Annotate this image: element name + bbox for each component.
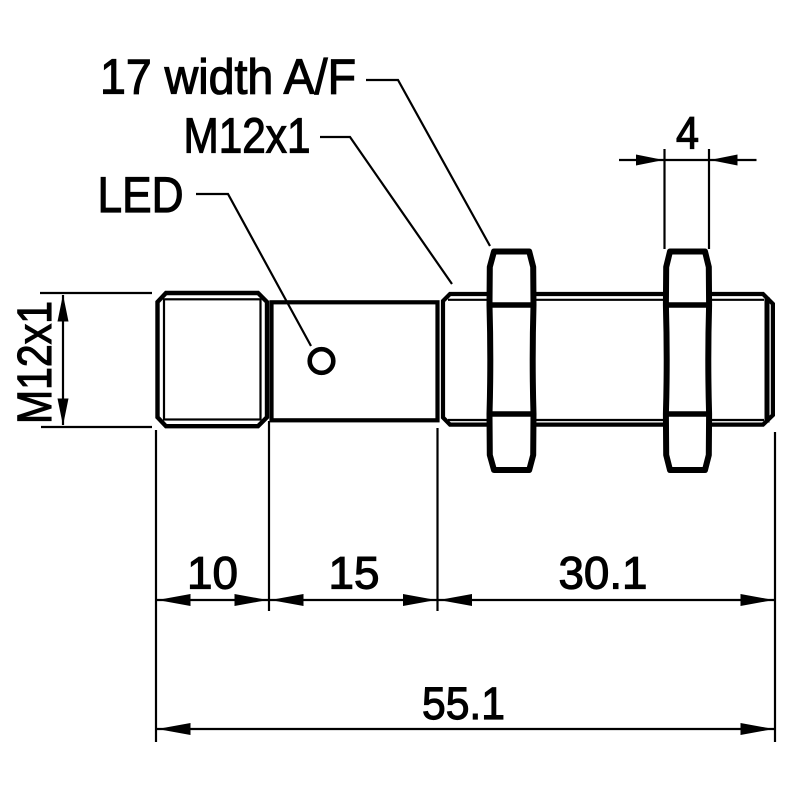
svg-text:55.1: 55.1 [422,678,505,729]
hex nut 2 upper facet line [663,302,711,307]
svg-text:15: 15 [329,548,380,599]
rear threaded barrel (30.1 mm section) outline [443,294,773,425]
svg-text:10: 10 [187,548,238,599]
rear barrel end-face edge (right) [765,297,770,423]
svg-text:M12x1: M12x1 [184,110,311,164]
extension line below body right end (x=775) [774,432,776,742]
svg-text:M12x1: M12x1 [9,301,62,424]
extension line top for vertical M12x1 [40,292,152,294]
extension line left of nut 2 width [663,149,665,249]
arrowhead right tip of "55.1" [741,723,774,735]
leader line for "M12x1" to rear barrel [320,137,452,284]
vertical dimension line for M12x1 [62,295,64,425]
arrowhead right tip of "30.1" [741,594,774,606]
leader line for "LED" to indicator circle [196,194,311,346]
arrowhead right tip of "15" [403,594,436,606]
left threaded section thread minor-diameter rectangle [164,299,261,419]
leader line for "17 width A/F" to nut 1 [366,80,490,246]
hex nut 1 upper facet line [487,302,536,307]
svg-text:17 width A/F: 17 width A/F [100,51,356,105]
left threaded section (10 mm section) outer outline [158,293,268,426]
hex nut 2 (rear lock nut) outline [666,252,709,471]
extension line below 10/15 junction (x=269) [268,421,270,611]
overall dimension line at y=729 [156,728,775,730]
middle body section (15 mm section) [272,302,438,420]
hex nut 1 lower facet line [487,411,536,416]
hex nut 1 (front lock nut) outline [490,252,534,471]
svg-text:LED: LED [98,167,184,223]
extension line right of nut 2 width [708,149,710,249]
dimension line row at y=600 [156,599,775,601]
arrowhead right tip of "10" [235,594,268,606]
rear barrel thread minor-diameter line (bottom) [448,419,764,421]
arrowhead down at bottom of M12x1 dimension [58,399,69,426]
LED indicator circle [310,349,334,373]
arrowhead left tip of "10" [158,594,191,606]
dimension line for "4" (continuous through extension lines) [619,159,757,161]
svg-text:4: 4 [676,108,699,159]
arrowhead pointing left at right extension line of "4" [710,155,738,166]
extension line below body left end (x=156) [155,430,157,742]
svg-text:30.1: 30.1 [559,548,648,599]
hex nut 2 lower facet line [663,411,711,416]
extension line bottom for vertical M12x1 [41,426,152,428]
arrowhead pointing right at left extension line of "4" [636,155,664,166]
extension line below 15/30.1 junction (x=437.5) [436,428,438,611]
arrowhead left tip of "55.1" [158,723,191,735]
arrowhead up at top of M12x1 dimension [58,295,69,322]
rear barrel thread minor-diameter line (top) [448,299,764,301]
arrowhead left tip of "30.1" [439,594,472,606]
arrowhead left tip of "15" [271,594,304,606]
